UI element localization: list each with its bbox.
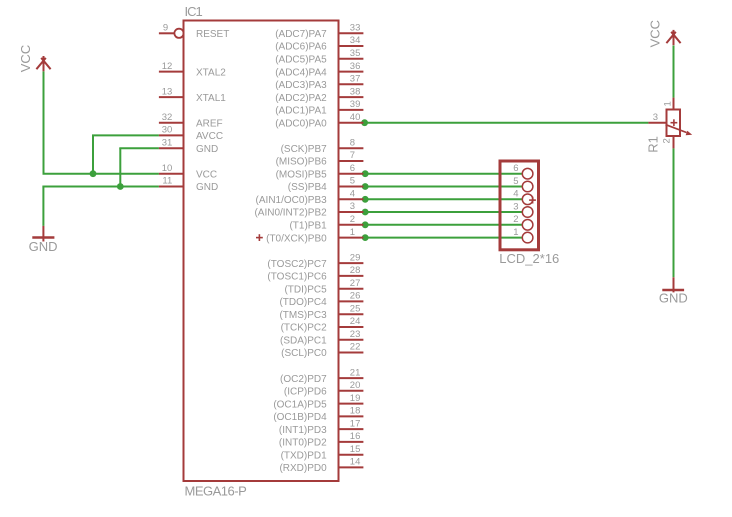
wire PB1 to LCD pin 2	[363, 224, 522, 226]
svg-text:(OC1B)PD4: (OC1B)PD4	[273, 412, 327, 423]
wire PB0 to LCD pin 1	[363, 237, 522, 239]
svg-text:17: 17	[350, 418, 361, 429]
IC1 pin 13 XTAL1	[159, 86, 226, 104]
svg-text:(TOSC1)PC6: (TOSC1)PC6	[267, 272, 327, 283]
svg-text:26: 26	[350, 291, 361, 302]
resistor R1 pin 3 stub	[648, 122, 666, 124]
svg-text:2: 2	[350, 214, 355, 225]
svg-text:(AIN0/INT2)PB2: (AIN0/INT2)PB2	[254, 208, 327, 219]
svg-text:10: 10	[162, 163, 173, 174]
resistor R1 pin 2 stub	[673, 136, 675, 148]
R1 pin 1 number	[662, 101, 673, 106]
IC1 pin 11 GND	[159, 176, 218, 194]
svg-text:(TDI)PC5: (TDI)PC5	[284, 284, 327, 295]
R1 origin cross	[671, 119, 678, 126]
svg-text:(OC1A)PD5: (OC1A)PD5	[273, 399, 327, 410]
svg-text:32: 32	[162, 112, 173, 123]
svg-text:1: 1	[662, 101, 673, 106]
R1 name label	[645, 136, 660, 153]
R1 wiper arrow	[666, 125, 693, 136]
IC1 pin 33 (ADC7)PA7	[275, 23, 363, 41]
IC1 pin 34 (ADC6)PA6	[275, 35, 363, 53]
IC1 pin 28 (TOSC1)PC6	[267, 265, 363, 283]
wire R1 pin 2 to GND	[673, 148, 675, 277]
svg-text:IC1: IC1	[185, 4, 203, 19]
connector LCD_2*16 body	[500, 161, 539, 250]
LCD_2*16 pin 5	[513, 176, 533, 192]
svg-text:4: 4	[513, 189, 518, 200]
IC1 pin 38 (ADC2)PA2	[275, 86, 363, 104]
svg-text:XTAL1: XTAL1	[196, 93, 226, 104]
node VCC label left	[18, 45, 33, 72]
svg-text:(ADC1)PA1: (ADC1)PA1	[275, 106, 327, 117]
junction PB4	[362, 183, 369, 190]
svg-text:5: 5	[350, 176, 355, 187]
svg-text:9: 9	[163, 23, 168, 34]
svg-text:15: 15	[350, 444, 361, 455]
wire PB4 to LCD pin 5	[363, 186, 522, 188]
svg-text:(TMS)PC3: (TMS)PC3	[279, 310, 327, 321]
wire GND to pin 11	[42, 186, 158, 188]
svg-text:(ADC5)PA5: (ADC5)PA5	[275, 55, 327, 66]
LCD_2*16 pin 6	[513, 163, 533, 179]
wire PA0 to R1 pin 3	[363, 122, 648, 124]
wire GND branch vertical	[119, 148, 121, 186]
IC1 pin 24 (TCK)PC2	[281, 316, 364, 334]
IC1 pin 26 (TDO)PC4	[279, 291, 363, 309]
node VCC label right	[648, 20, 663, 47]
svg-text:5: 5	[513, 176, 518, 187]
R1 pin 2 number	[662, 138, 673, 143]
svg-text:(TDO)PC4: (TDO)PC4	[279, 297, 327, 308]
LCD_2*16 pin 1	[513, 227, 533, 243]
node GND label left	[29, 239, 58, 254]
IC1 pin 36 (ADC4)PA4	[275, 61, 363, 79]
LCD_2*16 origin cross	[529, 197, 536, 204]
svg-text:AREF: AREF	[196, 118, 223, 129]
wire PB5 to LCD pin 6	[363, 173, 522, 175]
wire VCC right vertical	[673, 46, 675, 98]
IC1 pin 2 (T1)PB1	[289, 214, 363, 232]
svg-text:GND: GND	[196, 182, 218, 193]
svg-text:VCC: VCC	[18, 45, 33, 72]
svg-text:24: 24	[350, 316, 361, 327]
svg-text:LCD_2*16: LCD_2*16	[499, 251, 559, 266]
IC1 pin 8 (SCK)PB7	[281, 137, 364, 155]
svg-text:(TOSC2)PC7: (TOSC2)PC7	[267, 259, 327, 270]
svg-text:29: 29	[350, 252, 361, 263]
junction PB3	[362, 196, 369, 203]
junction VCC/AVCC	[90, 170, 97, 177]
svg-text:AVCC: AVCC	[196, 131, 223, 142]
svg-text:16: 16	[350, 431, 361, 442]
svg-text:3: 3	[653, 112, 658, 123]
svg-text:1: 1	[350, 227, 355, 238]
svg-text:(T0/XCK)PB0: (T0/XCK)PB0	[266, 233, 327, 244]
IC1 pin 3 (AIN0/INT2)PB2	[254, 201, 363, 219]
svg-text:28: 28	[350, 265, 361, 276]
svg-text:35: 35	[350, 48, 361, 59]
junction GND branch	[117, 183, 124, 190]
svg-text:(ADC2)PA2: (ADC2)PA2	[275, 93, 327, 104]
svg-text:33: 33	[350, 23, 361, 34]
svg-text:1: 1	[513, 227, 518, 238]
LCD_2*16 pin 2	[513, 214, 533, 230]
svg-text:(ADC0)PA0: (ADC0)PA0	[275, 118, 327, 129]
svg-text:25: 25	[350, 303, 361, 314]
wire GND left vertical	[42, 187, 44, 226]
IC1 pin 14 (RXD)PD0	[279, 457, 363, 475]
svg-text:19: 19	[350, 393, 361, 404]
svg-text:(SCL)PC0: (SCL)PC0	[281, 348, 327, 359]
svg-text:(AIN1/OC0)PB3: (AIN1/OC0)PB3	[256, 195, 328, 206]
IC1 origin cross	[256, 234, 263, 241]
node GND label right	[659, 290, 688, 305]
svg-text:34: 34	[350, 35, 361, 46]
svg-text:(T1)PB1: (T1)PB1	[289, 221, 327, 232]
ground GND symbol left	[32, 226, 54, 242]
svg-text:(SCK)PB7: (SCK)PB7	[281, 144, 328, 155]
svg-text:GND: GND	[29, 239, 58, 254]
ground GND symbol right	[662, 277, 684, 292]
svg-text:(MISO)PB6: (MISO)PB6	[276, 157, 328, 168]
svg-text:2: 2	[513, 214, 518, 225]
svg-text:40: 40	[350, 112, 361, 123]
IC1 pin 23 (SDA)PC1	[280, 329, 363, 347]
IC1 pin 25 (TMS)PC3	[279, 303, 363, 321]
IC1 pin 27 (TDI)PC5	[284, 278, 363, 296]
svg-text:RESET: RESET	[196, 29, 229, 40]
IC1 pin 17 (INT1)PD3	[279, 418, 363, 436]
LCD_2*16 pin 4	[513, 189, 533, 205]
op-amp U1 IC1 MEGA16-P body	[184, 21, 339, 482]
svg-text:22: 22	[350, 342, 361, 353]
IC1 pin 32 AREF	[159, 112, 223, 129]
svg-text:23: 23	[350, 329, 361, 340]
wire AVCC branch vertical	[92, 135, 94, 173]
IC1 value label MEGA16-P	[185, 484, 247, 499]
svg-text:27: 27	[350, 278, 361, 289]
IC1 pin 12 XTAL2	[159, 61, 226, 79]
svg-text:12: 12	[162, 61, 173, 72]
svg-text:6: 6	[350, 163, 355, 174]
IC1 pin 31 GND	[159, 137, 218, 155]
junction PB0	[362, 234, 369, 241]
svg-text:(TXD)PD1: (TXD)PD1	[281, 450, 328, 461]
junction PB1	[362, 221, 369, 228]
svg-text:7: 7	[350, 150, 355, 161]
svg-text:(OC2)PD7: (OC2)PD7	[280, 374, 327, 385]
svg-text:GND: GND	[659, 290, 688, 305]
IC1 pin 20 (ICP)PD6	[284, 380, 363, 398]
svg-text:37: 37	[350, 74, 361, 85]
power VCC symbol right	[666, 30, 680, 45]
IC1 pin 15 (TXD)PD1	[281, 444, 364, 462]
IC1 pin 35 (ADC5)PA5	[275, 48, 363, 66]
wire VCC left vertical	[43, 71, 45, 173]
svg-text:30: 30	[162, 125, 173, 136]
LCD_2*16 name label	[499, 251, 559, 266]
wire VCC to pin 10	[43, 173, 159, 175]
R1 pin 3 number	[653, 112, 658, 123]
resistor R1 body	[667, 110, 681, 137]
svg-text:14: 14	[350, 457, 361, 468]
svg-text:21: 21	[350, 367, 361, 378]
IC1 pin 18 (OC1B)PD4	[273, 406, 363, 424]
IC1 pin 16 (INT0)PD2	[279, 431, 363, 449]
svg-text:(ADC3)PA3: (ADC3)PA3	[275, 80, 327, 91]
svg-text:39: 39	[350, 99, 361, 110]
svg-text:4: 4	[350, 189, 355, 200]
svg-text:VCC: VCC	[196, 169, 217, 180]
svg-text:(MOSI)PB5: (MOSI)PB5	[276, 169, 328, 180]
svg-text:R1: R1	[645, 136, 660, 153]
junction PB5	[362, 170, 369, 177]
svg-text:(ADC6)PA6: (ADC6)PA6	[275, 42, 327, 53]
IC1 pin 21 (OC2)PD7	[280, 367, 363, 385]
resistor R1 pin 1 stub	[673, 98, 675, 110]
svg-text:8: 8	[350, 137, 355, 148]
svg-text:13: 13	[162, 86, 173, 97]
svg-text:(TCK)PC2: (TCK)PC2	[281, 323, 328, 334]
IC1 pin 7 (MISO)PB6	[276, 150, 364, 168]
IC1 pin 19 (OC1A)PD5	[273, 393, 363, 411]
svg-text:18: 18	[350, 406, 361, 417]
svg-text:11: 11	[162, 176, 172, 187]
svg-text:6: 6	[513, 163, 518, 174]
junction pin 40	[361, 119, 368, 126]
IC1 pin 37 (ADC3)PA3	[275, 74, 363, 92]
svg-text:(ADC4)PA4: (ADC4)PA4	[275, 67, 327, 78]
IC1 pin 22 (SCL)PC0	[281, 342, 363, 360]
IC1 pin 10 VCC	[159, 163, 217, 181]
IC1 pin 40 (ADC0)PA0	[275, 112, 363, 129]
svg-text:MEGA16-P: MEGA16-P	[185, 484, 247, 499]
wire PB3 to LCD pin 4	[363, 198, 522, 200]
power VCC symbol left	[36, 56, 50, 71]
svg-text:36: 36	[350, 61, 361, 72]
svg-text:GND: GND	[196, 144, 218, 155]
IC1 pin 6 (MOSI)PB5	[276, 163, 364, 181]
IC1 pin 4 (AIN1/OC0)PB3	[256, 189, 364, 207]
svg-text:(SDA)PC1: (SDA)PC1	[280, 336, 327, 347]
wire AVCC branch to pin 30	[92, 134, 159, 136]
svg-text:(INT1)PD3: (INT1)PD3	[279, 425, 327, 436]
svg-text:3: 3	[513, 201, 518, 212]
IC1 name label	[185, 4, 203, 19]
svg-text:31: 31	[162, 137, 173, 148]
svg-text:38: 38	[350, 86, 361, 97]
svg-text:(RXD)PD0: (RXD)PD0	[279, 463, 327, 474]
svg-text:(INT0)PD2: (INT0)PD2	[279, 438, 327, 449]
IC1 pin 5 (SS)PB4	[288, 176, 364, 194]
svg-text:(ICP)PD6: (ICP)PD6	[284, 387, 327, 398]
IC1 pin 1 (T0/XCK)PB0	[266, 227, 363, 245]
svg-text:20: 20	[350, 380, 361, 391]
IC1 pin 30 AVCC	[159, 125, 223, 143]
svg-text:(ADC7)PA7: (ADC7)PA7	[275, 29, 327, 40]
wire PB2 to LCD pin 3	[363, 211, 522, 213]
LCD_2*16 pin 3	[513, 201, 533, 217]
IC1 pin 39 (ADC1)PA1	[275, 99, 363, 117]
wire GND branch to pin 31	[119, 147, 159, 149]
svg-text:VCC: VCC	[648, 20, 663, 47]
IC1 pin 9 RESET	[159, 23, 229, 41]
IC1 pin 29 (TOSC2)PC7	[267, 252, 363, 270]
svg-text:2: 2	[662, 138, 673, 143]
svg-text:XTAL2: XTAL2	[196, 67, 226, 78]
svg-text:(SS)PB4: (SS)PB4	[288, 182, 327, 193]
junction PB2	[362, 209, 369, 216]
svg-text:3: 3	[350, 201, 355, 212]
